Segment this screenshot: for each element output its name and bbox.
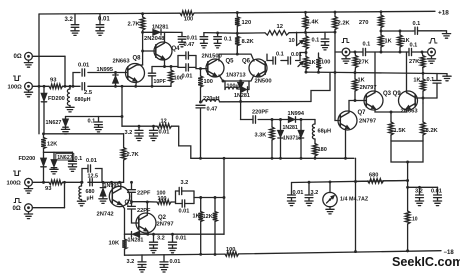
wire Q9 base [415,97,437,100]
svg-text:1N627: 1N627 [57,155,72,161]
capacitor 22PF (upper) [128,190,151,197]
svg-text:0.1: 0.1 [410,42,418,48]
ground (3.2 output a) [150,248,158,253]
wire comp branch lower [81,169,102,184]
svg-text:0.1: 0.1 [276,51,284,57]
transistor Q6 2N500 [242,58,272,84]
wire Q1 emitter drop [121,204,124,234]
ground (1N995 lower) [99,199,107,204]
capacitor 0.01 (W2) [288,183,304,202]
capacitor 0.1 (Q9) [427,74,442,99]
svg-text:1.5K: 1.5K [394,128,407,134]
diode 1N995 (top) [113,71,118,88]
wire Q9 collector riser [406,52,408,93]
ground (0.1 clamp top) [94,127,102,132]
ground (0.01 right) [433,201,441,206]
wire left supply vertical [38,14,40,134]
ground (1N627 lower) [50,169,58,174]
resistor 100 (-18 rail) [225,247,239,256]
wire inter-collector [380,51,406,54]
wire output drop riser [223,158,225,234]
resistor 2.7K (Q1 collector) [121,134,139,183]
svg-text:2N663: 2N663 [113,59,131,65]
junction Q4 base feed [141,50,144,53]
wire loop left [171,191,176,204]
resistor 93 (top input) [49,77,63,88]
svg-text:27K: 27K [409,59,419,65]
svg-text:100: 100 [226,247,235,253]
pulse icon (trigger input) [342,39,349,43]
resistor 1K (divider) [193,198,204,255]
wire staircase to W1 [311,73,330,102]
ground (0.01 W2) [287,201,295,206]
svg-text:0.1: 0.1 [75,156,83,162]
capacitor 0.1 (output) [406,42,428,55]
svg-text:680: 680 [369,172,378,178]
transistor Q5 2N1500 [202,53,235,77]
connector trigger input [335,48,363,56]
transistor Q3 2N797 [360,85,402,110]
ground (1N627 top) [61,129,69,134]
svg-text:220µH: 220µH [203,96,220,102]
svg-text:0.01: 0.01 [159,129,170,135]
svg-text:1K: 1K [193,214,200,220]
svg-text:2N500: 2N500 [255,78,272,84]
svg-text:0.1: 0.1 [413,21,421,27]
wire 0-ohm drop [64,56,67,87]
svg-text:10: 10 [412,217,418,223]
diode 1N281 (Q4 coupling) [141,24,182,35]
ground (3.2 right) [415,201,423,206]
svg-text:1/4 M4.7AZ: 1/4 M4.7AZ [340,197,369,203]
svg-text:68µH: 68µH [318,129,332,135]
connector 100-ohm input (top) [25,82,33,90]
junction rail/1.4K [304,11,307,14]
connector 0-ohm input (top) [25,52,65,60]
wire loop right [193,191,195,204]
svg-text:100µH: 100µH [227,83,243,89]
junction rail/120 [236,11,239,14]
label zener [340,197,369,203]
resistor 12K (divider) [203,198,218,255]
ground (trigger input) [342,56,350,64]
wire box drop [406,162,409,211]
ground (680uH lower) [77,201,85,206]
wire Q8 collector [137,64,143,66]
svg-text:1K: 1K [358,78,365,84]
svg-text:680µH: 680µH [75,97,91,103]
resistor 3.3K [255,120,275,159]
svg-text:0.1: 0.1 [312,38,320,44]
svg-text:0.01: 0.01 [291,52,302,58]
wire riser Q8-emitter to cap bus [121,85,124,126]
svg-text:0.1: 0.1 [88,119,96,125]
svg-text:100Ω: 100Ω [7,180,22,186]
svg-text:1N281: 1N281 [234,93,250,99]
label 0-ohm lower [13,206,21,212]
svg-text:1N994: 1N994 [288,111,305,117]
transistor Q1 2N742 [97,182,134,217]
resistor 8.2K (Q9 emitter) [421,98,439,141]
wire base bias bus [237,31,336,34]
capacitor 220PF [252,110,269,124]
svg-text:Q6: Q6 [242,58,251,64]
junction input/left-vertical [38,85,41,88]
watermark SeekIC.com [392,255,460,269]
svg-text:120: 120 [242,20,252,26]
inductor 680uH (top) [67,85,71,107]
svg-text:100: 100 [321,60,330,66]
ground (collector bypass) [441,31,451,38]
resistor 8.2K (Q5/Q6) [235,33,255,54]
ground (0-ohm lower) [28,212,30,214]
diode 1N995 (lower) [100,182,105,199]
resistor 27K (output) [409,51,425,74]
svg-text:100: 100 [184,16,193,22]
svg-text:2N742: 2N742 [97,211,114,217]
capacitor 0.1 (collector bypass) [413,21,442,34]
svg-text:FD200: FD200 [48,96,65,102]
svg-text:2N797: 2N797 [157,221,174,227]
ground (decoupling b) [214,43,221,48]
capacitor 0.01 (output b) [169,234,187,248]
svg-text:0.01: 0.01 [293,190,304,196]
tunnel diode 1N3713 (Q5/Q6) [226,72,246,101]
resistor 100 (in +18 rail) [180,11,194,23]
wire collector bridge [219,53,254,61]
wire top input bus [32,85,171,87]
capacitor 0.01 (below rail b) [160,255,180,268]
svg-text:0.01: 0.01 [170,259,181,265]
svg-text:Q7: Q7 [358,110,367,116]
wire 0-ohm riser (lower) [64,182,66,207]
svg-text:1N995: 1N995 [97,67,113,73]
resistor 27K (trigger in) [353,51,369,73]
resistor 270 [359,12,383,31]
capacitor 2.5 (series, top input) [82,83,93,96]
capacitor 0.01 (rail bypass) [96,14,110,31]
label 680uH top [75,97,91,103]
transistor Q2 2N797 [136,213,174,233]
resistor 1K (Q3 collector) [379,31,392,52]
capacitor 3.2 (loop upper) [176,180,195,195]
wire Q7 base [335,72,340,120]
capacitor 0.01 (coupling lower) [178,64,196,80]
svg-text:93: 93 [45,186,52,192]
capacitor 10PF [148,67,166,88]
wire Q1 collector [120,182,122,189]
svg-text:0.47: 0.47 [207,106,218,112]
ground (100-ohm lower) [24,186,32,193]
svg-text:3.2: 3.2 [311,190,319,196]
label 680uH lower [86,189,95,201]
resistor 2.7K (Q8 collector) [128,14,145,65]
wire Q3 base [354,99,366,102]
wire compensation branch [72,73,127,88]
wire 133 link [44,133,124,135]
wire bus B riser [355,158,357,251]
svg-text:+18: +18 [438,9,449,16]
svg-text:Q5: Q5 [226,59,235,65]
wire right cap feed [406,186,437,189]
capacitor 22PF (lower) [128,206,151,214]
capacitor 0.1 (bias bus) [312,32,329,45]
ground (3.2 W2) [305,201,313,206]
svg-text:2N2048: 2N2048 [144,36,165,42]
ground (0.01 Q4) [179,42,186,47]
svg-text:2.5: 2.5 [84,90,93,96]
svg-text:Q3 Q9: Q3 Q9 [383,91,401,97]
wire Q2 collector [146,201,149,215]
svg-text:270: 270 [359,20,369,26]
wire Q7 collector [349,101,355,113]
pulse icon (0-ohm lower) [14,199,21,203]
node +18 label [438,9,449,16]
zener 1/4 M4.7AZ [323,182,337,209]
wire lower input bus [42,181,103,184]
wire feedback tap [130,200,157,203]
capacitor 0.01 (cap bus) [150,126,170,136]
transistor Q9 2N663 [399,91,419,114]
svg-text:8.2K: 8.2K [426,128,439,134]
wire 22PF chain [130,181,138,223]
svg-text:0.1: 0.1 [363,41,371,47]
svg-text:2N797: 2N797 [360,85,377,91]
svg-text:27K: 27K [359,59,369,65]
inductor 100uH [223,81,243,90]
wire -18 rail [125,249,442,255]
wire emitter join [375,109,407,113]
capacitor 0.1 (branch a) [273,51,284,64]
svg-text:100Ω: 100Ω [8,84,23,90]
ground (0.01 below rail) [160,267,168,272]
svg-text:0.01: 0.01 [431,188,442,194]
svg-text:93: 93 [50,77,57,83]
wire emitter link [219,75,254,82]
resistor 1K (Q9 base) [413,73,425,98]
svg-text:3.3K: 3.3K [255,132,267,138]
connector output [428,39,437,56]
wire wiper tie [296,32,298,45]
wire staircase bus [179,126,191,158]
arrow wiper 10 [297,40,304,45]
label 0-ohm top [14,54,22,60]
wire trigger bus W1 [334,71,447,75]
label FD200 lower [19,156,36,162]
svg-text:3.2: 3.2 [181,180,189,186]
potentiometer 1K [304,53,316,73]
ground (0.01 cap bus) [149,136,157,141]
resistor 10 (bleeder) [405,211,417,252]
diode 1N994 [288,111,305,122]
svg-text:3.2: 3.2 [157,236,165,242]
inductor 220uH [202,96,220,102]
label 100-ohm top [8,84,23,90]
ground (W1 end) [443,74,451,81]
resistor 93 (lower input) [45,180,63,192]
resistor 2.2K [333,12,351,73]
capacitor 0.47 (bus A) [196,105,217,159]
wire pot bottom [305,71,335,74]
capacitor (decoupling a) [200,33,208,44]
diode 1N281 (shaping) [278,120,298,159]
resistor 100 (Q5 base) [198,67,213,103]
svg-text:Q2: Q2 [158,215,167,221]
svg-text:1N3713: 1N3713 [283,135,301,141]
connector 0-ohm input (lower) [25,204,65,212]
capacitor 3.2 (right) [415,187,423,201]
wire Q3 collector riser [374,52,376,93]
resistor 1K (Q9 collector) [398,31,410,52]
svg-text:FD200: FD200 [19,156,36,162]
capacitor 0.01 (comp lower) [86,158,97,172]
svg-text:3.2: 3.2 [65,17,74,23]
svg-text:0.1: 0.1 [427,77,435,83]
svg-text:1N3713: 1N3713 [226,72,246,78]
svg-text:0.01: 0.01 [176,236,187,242]
ground (680uH top) [66,107,74,112]
resistor 1.4K [303,12,319,32]
wire output box [391,141,423,163]
label 1N627 top [46,120,62,126]
capacitor 0.1 (clamp lower) [69,152,83,167]
svg-text:22PF: 22PF [137,190,151,196]
pulse icon (100-ohm top) [14,76,21,81]
diode 1N627 (lower) [51,152,56,169]
inductor 680uH (lower) [79,181,83,201]
capacitor 0.01 (series, comp branch) [78,63,90,77]
svg-text:12K: 12K [47,142,57,148]
svg-text:1N627: 1N627 [46,120,62,126]
wire divider feed [194,196,225,199]
svg-text:Q4: Q4 [172,46,181,52]
ground (decoupling a) [200,43,207,48]
svg-text:100: 100 [204,79,213,85]
resistor 10K [109,234,127,255]
junction input/FD200 [43,85,46,88]
svg-text:0.01: 0.01 [179,209,190,215]
svg-text:0.01: 0.01 [86,158,97,164]
svg-text:1N281: 1N281 [128,237,144,243]
wire 220uH bus A [220,101,312,103]
transistor Q8 2N663 [113,56,145,83]
wire 120/8.2K drop [236,32,239,54]
svg-text:SeekIC.com: SeekIC.com [392,255,460,269]
wire cap branch [267,51,307,60]
label 100-ohm lower [7,180,22,186]
transistor Q4 2N2048 [144,36,180,60]
capacitor 0.01 (branch b) [288,52,302,64]
resistor 12K (lower feed) [41,132,57,152]
arrow wiper 1K [298,61,303,66]
svg-text:12: 12 [161,119,167,125]
capacitor 3.2 (W2) [305,182,318,201]
svg-text:10K: 10K [109,241,120,247]
resistor 12 [265,24,289,35]
svg-text:1K: 1K [413,78,420,84]
wire Q4 emitter [152,60,178,68]
diode 1N281 (100uH) [234,81,250,99]
resistor 180 [313,139,327,158]
wire Q7 emitter [344,129,347,160]
capacitor 0.01 (loop lower) [176,200,195,215]
capacitor 0.01 (Q4 collector) [178,32,197,42]
wire Q4 base [143,50,156,52]
wire +18 supply rail [39,11,435,14]
wire Q5 base [196,56,207,69]
svg-text:0.01: 0.01 [182,73,193,79]
resistor 100 (pot bottom) [316,53,330,72]
wire bus B [191,157,354,160]
resistor 680 [356,172,408,183]
label 1N995 top [97,67,113,73]
pulse icon (100-ohm lower) [14,171,21,176]
junction rail/270 [380,10,383,13]
wire Q2 output bus [125,233,225,236]
svg-text:0.01: 0.01 [187,36,198,42]
wire cap bus y126 [122,125,179,128]
label 1N995 lower [104,183,120,189]
capacitor 0.1 (decoupling b) [214,31,232,43]
diode 1N627 (top) [63,117,68,130]
svg-text:1.4K: 1.4K [307,20,320,26]
wire W2 bus [292,180,408,184]
transistor Q7 2N797 [338,110,376,130]
ground (3.2 rail bypass) [71,31,79,36]
svg-text:0.47: 0.47 [184,42,195,48]
svg-text:220PF: 220PF [252,110,269,116]
wire decoupling caps [204,32,237,35]
ground (output conn) [427,56,435,64]
svg-text:0.01: 0.01 [98,17,110,23]
resistor 100 (feedback) [157,191,172,205]
svg-text:1N281: 1N281 [283,125,298,131]
svg-text:0.1: 0.1 [224,36,232,42]
svg-text:µH: µH [87,195,94,201]
diode 1N281 (Q2 output) [128,232,144,244]
wire shaping bus [241,118,316,121]
capacitor 0.01 (right) [431,187,442,201]
junction rail/2.2K [334,11,337,14]
label -18 [444,250,455,256]
wire Q1 base bus [102,181,124,184]
svg-text:2N797: 2N797 [359,118,376,124]
ground (zener) [326,209,334,214]
svg-text:10PF: 10PF [154,79,166,85]
svg-text:3.2: 3.2 [127,259,135,265]
potentiometer 10 [289,32,309,52]
capacitor 3.2 (output a) [150,234,165,248]
ground (0.01 output b) [169,248,177,253]
capacitor 3.2 (cap bus) [135,126,143,136]
resistor 100 (Q4 emitter) [169,67,183,87]
svg-text:2.7K: 2.7K [127,152,140,158]
ground (0.1 bias) [321,45,328,50]
inductor 68uH [312,120,331,140]
ground (0.01 rail bypass) [96,31,104,36]
junction rail/2.7K [141,12,144,15]
resistor 12 (cap bus) [157,119,172,129]
svg-text:3.2: 3.2 [125,130,133,136]
resistor 120 [235,13,251,34]
svg-text:180: 180 [318,147,327,153]
svg-text:12K: 12K [203,214,213,220]
wire tunnel drop [239,100,242,119]
capacitor 0.47 (coupling upper) [178,42,196,59]
capacitor 3.2 (rail bypass) [65,14,79,31]
svg-text:12.5: 12.5 [88,174,99,180]
diode FD200 (lower) [41,152,46,183]
